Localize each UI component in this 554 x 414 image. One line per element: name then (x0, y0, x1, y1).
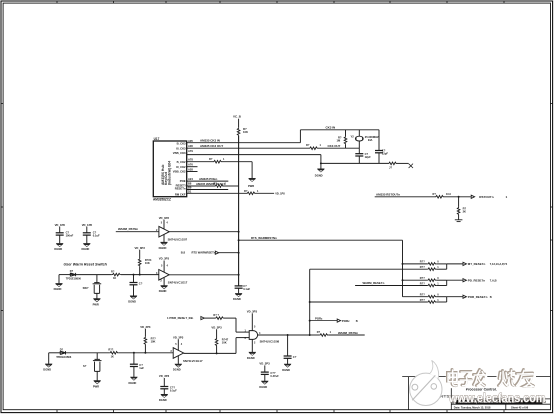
resistor R on A78 row (213, 160, 222, 163)
resistor R pull-up VC_B (237, 128, 240, 136)
svg-text:1uF: 1uF (139, 366, 144, 370)
svg-text:R?: R? (111, 269, 115, 273)
switch SW body (94, 283, 99, 299)
svg-text:7,12,13,A,P,74: 7,12,13,A,P,74 (490, 262, 508, 266)
svg-text:VBB_CK2: VBB_CK2 (173, 170, 186, 174)
watermark logo dot right (431, 384, 437, 390)
wire ferrite right (397, 162, 409, 164)
junction dot gate1 output at bus (238, 231, 240, 233)
wire gate1 input (116, 231, 159, 233)
watermark logo dot left (412, 384, 418, 390)
svg-text:R?: R? (209, 157, 213, 161)
svg-text:Sheet 42 of 96: Sheet 42 of 96 (511, 406, 529, 410)
wire group3 top (403, 296, 428, 298)
wire gate3 output (184, 352, 236, 354)
capacitor Ca (355, 154, 363, 156)
wire debounce cap bottom (133, 285, 135, 296)
svg-text:VD_3P3: VD_3P3 (247, 310, 258, 314)
watermark halo right (497, 368, 537, 390)
size box B divider (455, 399, 457, 404)
wire group1 to arrow (447, 263, 463, 265)
wire osc to cap Ca (358, 148, 360, 153)
svg-text:PORz: PORz (342, 319, 350, 323)
wire group2 bottom (355, 285, 427, 287)
wire pull-up bottom vcc lead (144, 329, 146, 337)
wire AND vcc lead (251, 313, 253, 330)
junction dot group1 left (402, 263, 404, 265)
op-amp triangle gate3 (173, 348, 183, 359)
wire osc bottom rail (321, 162, 388, 164)
wire right branch top (378, 130, 380, 151)
svg-text:J?: J? (389, 166, 392, 170)
svg-text:AM335 CK3 OUT: AM335 CK3 OUT (200, 144, 223, 148)
wire VBB row drop at x=320.9 (320, 155, 322, 169)
IC U17 pin numbers (188, 139, 193, 193)
wire pull-up bottom bottom (144, 345, 146, 353)
wire decap mid bottom (264, 374, 266, 381)
wire osc bottom lead (358, 141, 360, 148)
svg-text:XI_CK2: XI_CK2 (176, 165, 186, 169)
resistor R2 feedback vertical (344, 136, 347, 144)
wire group3 join (446, 297, 448, 302)
wire VC_B lead (238, 119, 240, 128)
svg-text:DGND: DGND (54, 247, 62, 251)
svg-text:PD_RESETn: PD_RESETn (468, 278, 486, 282)
wire AND output (258, 334, 310, 336)
svg-text:DGND: DGND (54, 287, 62, 291)
svg-text:R?: R? (317, 330, 321, 334)
junction dot AND output cap (287, 334, 289, 336)
svg-text:DGND: DGND (259, 385, 267, 389)
svg-text:0.1uF: 0.1uF (93, 234, 100, 238)
title block left edge (408, 377, 410, 410)
svg-text:R??: R?? (420, 265, 425, 269)
svg-text:1: 1 (506, 195, 508, 199)
ground DGND cap B (83, 243, 90, 247)
resistor R group1 top (427, 263, 436, 266)
wire pin A76 stub (187, 166, 198, 168)
connector arrow POR_RESETn (463, 295, 466, 298)
svg-text:www.elecfans.com: www.elecfans.com (448, 391, 546, 405)
resistor R on CK3 OUT row (309, 147, 318, 150)
wire cap B bottom (86, 235, 88, 243)
switch S pushbutton stem bottom (96, 353, 98, 360)
svg-text:Y2: Y2 (351, 135, 355, 139)
svg-text:VD_1P8: VD_1P8 (82, 223, 93, 227)
buffer gate SN74LVC1G17 (gate3 bottom) (173, 339, 236, 364)
svg-text:R??: R?? (420, 260, 425, 264)
wire cap A bottom (59, 235, 61, 243)
wire debounce cap bottom lead (133, 353, 135, 364)
svg-text:PWR: PWR (248, 184, 254, 188)
wire pin D1 row left (187, 192, 247, 194)
wire riser from CK3 IN row (299, 130, 301, 143)
junction dot AND output riser (309, 334, 311, 336)
wire pin B9 row (187, 189, 229, 191)
wire left end drop to gnd (58, 275, 60, 284)
svg-text:2K: 2K (463, 210, 466, 214)
resistor R group2 top (427, 279, 436, 282)
svg-text:DGND: DGND (173, 368, 181, 372)
connector arrow PORz (337, 319, 340, 322)
wire pull-up AND input vcc lead (216, 329, 218, 338)
ground PWR bottom switch (94, 380, 101, 384)
capacitor C cap B (83, 233, 91, 235)
wire group1 bottom riser at x=309.7 (309, 269, 311, 335)
resistor R group1 bottom (427, 268, 436, 271)
wire decap mid vcc lead (264, 365, 266, 372)
wire bottom row main (49, 352, 61, 354)
svg-text:RTS WARMRSETn: RTS WARMRSETn (192, 251, 216, 255)
wire switch row main (59, 274, 70, 276)
svg-text:RSTOUTn: RSTOUTn (479, 195, 493, 199)
svg-text:R??: R?? (420, 281, 425, 285)
wire pull-up AND input bottom (216, 346, 218, 353)
svg-text:MT_RESETn: MT_RESETn (468, 262, 486, 266)
svg-text:DGND: DGND (159, 246, 167, 250)
connector arrow RSTOUTn (471, 195, 474, 198)
wire cap A vcc lead (59, 227, 61, 233)
wire pin A05 CK3 IN row (187, 142, 301, 144)
wire debounce cap lead (133, 275, 135, 283)
svg-text:SN74LVC1G07: SN74LVC1G07 (168, 238, 188, 242)
ground DGND debounce bottom (130, 377, 137, 381)
svg-text:B_CK3: B_CK3 (177, 142, 186, 146)
resistor R group3 bottom (427, 301, 436, 304)
svg-text:VD_3P3: VD_3P3 (135, 246, 146, 250)
ground DGND AND output cap (284, 364, 291, 368)
resistor R series WARM_RSTNn (319, 334, 328, 337)
svg-text:AM335 CK3 IN: AM335 CK3 IN (200, 139, 220, 143)
svg-text:1 PWR_RESET_INn: 1 PWR_RESET_INn (167, 316, 193, 320)
wire gate2 output to bus (169, 274, 238, 276)
svg-text:R? ?: R? ? (213, 313, 219, 317)
watermark char dian (448, 370, 458, 386)
wire pin A28 stub (187, 171, 198, 173)
wire gate1 gnd stem (163, 235, 165, 243)
svg-text:R??: R?? (420, 292, 425, 296)
wire decap left vcc lead (163, 378, 165, 386)
wire RSTOUT left (375, 196, 435, 198)
junction dot riser at group3 bottom (309, 301, 311, 303)
svg-text:B_CK2: B_CK2 (177, 160, 186, 164)
diode D ESD bottom (60, 351, 65, 354)
wire pin A78 row left (187, 161, 213, 163)
svg-text:RESETn: RESETn (175, 187, 186, 191)
wire right drop to resistor groups (402, 240, 404, 297)
svg-text:1K: 1K (111, 355, 114, 359)
svg-text:WARM_RSTNn: WARM_RSTNn (338, 331, 358, 335)
IC U17 vertical part text (161, 161, 171, 185)
junction dot RTS connector at bus (238, 252, 240, 254)
svg-text:DGND: DGND (233, 297, 241, 301)
svg-text:C?: C? (293, 355, 297, 359)
wire RTS row from bus to right (239, 239, 403, 241)
svg-text:A24: A24 (188, 177, 193, 181)
ground PWR under A78 drop (248, 178, 255, 182)
junction dot pull-up bottom (144, 352, 146, 354)
svg-text:100nF: 100nF (66, 234, 74, 238)
wire group3 to arrow (447, 296, 463, 298)
svg-text:VD_3P3: VD_3P3 (211, 325, 222, 329)
connector arrow MT_RESETn (463, 262, 466, 265)
connector arrow into bus (215, 251, 218, 254)
wire pin A24 POE row (187, 180, 229, 182)
watermark logo flame outer (417, 361, 439, 388)
svg-text:10K: 10K (145, 261, 150, 265)
svg-text:AM335 RSTOUTn: AM335 RSTOUTn (376, 192, 400, 196)
wire below pulldown resistor (458, 215, 460, 220)
ground DGND cap A (56, 243, 63, 247)
svg-text:A79: A79 (188, 149, 193, 153)
ground PWR under switch (93, 298, 100, 302)
svg-text:SN74LVC1G17: SN74LVC1G17 (168, 281, 188, 285)
svg-text:XI_CK3: XI_CK3 (176, 146, 186, 150)
wire pull-up R4 vcc lead (139, 250, 141, 258)
wire group2 to arrow (447, 279, 463, 281)
decoupling cap bottom middle (264, 365, 266, 381)
switch S body bottom (95, 359, 100, 380)
wire group3 bottom (310, 301, 428, 303)
capacitor C decap mid (261, 372, 269, 374)
wire Ca bottom (358, 156, 360, 163)
svg-text:EIA: EIA (368, 138, 372, 142)
wire gate2 gnd stem (163, 278, 165, 286)
wire debounce cap bottom bottom (133, 367, 135, 378)
svg-text:(Industrial) E04: (Industrial) E04 (167, 161, 171, 185)
wire PORz row (310, 320, 337, 322)
svg-text:1K: 1K (113, 276, 116, 280)
AND gate U? body (249, 331, 257, 340)
no-connect X (409, 164, 413, 168)
title block row line below bar (451, 403, 550, 405)
svg-text:POE: POE (180, 179, 186, 183)
svg-text:R??: R?? (420, 276, 425, 280)
title block row line above bar (451, 398, 550, 400)
resistor R group3 top (427, 295, 436, 298)
svg-text:RM CKF: RM CKF (175, 193, 186, 197)
svg-text:B: B (490, 295, 492, 299)
svg-text:VD_3P3: VD_3P3 (159, 216, 170, 220)
svg-text:TPD1E10B06: TPD1E10B06 (56, 356, 72, 359)
wire RTS connector into bus (219, 252, 239, 254)
svg-text:WARM_RESETn: WARM_RESETn (363, 281, 385, 285)
svg-text:D?: D? (70, 269, 74, 273)
svg-text:0.47uF: 0.47uF (270, 374, 279, 378)
resistor R4 pull-up (138, 258, 141, 266)
wire RSTOUT pulldown drop (458, 197, 460, 207)
svg-text:DGND: DGND (282, 368, 290, 372)
op-amp U? triangle gate2 (159, 270, 169, 281)
svg-text:DGND: DGND (159, 289, 167, 293)
ground DGND bus bottom (235, 293, 242, 297)
svg-text:10K: 10K (222, 341, 227, 345)
wire pin A78 row right (222, 161, 252, 163)
wire pin A06 CK3 OUT row right part (318, 147, 359, 149)
svg-text:VD_3P3: VD_3P3 (173, 335, 184, 339)
wire top rail to R2 (345, 130, 347, 136)
capacitor C debounce (130, 283, 138, 285)
watermark char you (516, 370, 534, 388)
svg-text:7,A,B: 7,A,B (490, 278, 497, 282)
junction dot osc bottom rail (320, 162, 322, 164)
resistor R series bottom row (109, 352, 118, 355)
wire pin A79 VBB row (187, 154, 321, 156)
svg-text:10K: 10K (151, 339, 156, 343)
wire group2 join (446, 280, 448, 285)
resistor R pull-up AND (215, 338, 218, 346)
watermark char fa (474, 370, 486, 387)
svg-text:DGND: DGND (129, 381, 137, 385)
wire bus vertical (238, 136, 240, 286)
junction dot gate2 output at bus (238, 274, 240, 276)
svg-text:SN74LVC1G08: SN74LVC1G08 (260, 339, 280, 343)
svg-text:A78: A78 (188, 158, 193, 162)
wire osc top rail (300, 129, 379, 131)
ground DGND decap mid (261, 381, 268, 385)
svg-text:A06: A06 (188, 144, 193, 148)
ground DGND bottom left (45, 364, 52, 368)
wire group2 top (403, 279, 428, 281)
svg-text:AM335 WARM RESET: AM335 WARM RESET (196, 182, 225, 186)
wire group1 bottom (310, 268, 428, 270)
svg-text:AM335 POEn: AM335 POEn (199, 177, 217, 181)
op-amp U? triangle gate1 (159, 226, 169, 237)
svg-text:AM3358ZCZ: AM3358ZCZ (153, 198, 171, 202)
svg-text:C?: C? (139, 281, 143, 285)
svg-text:PWR: PWR (93, 303, 99, 307)
svg-text:CK3 OUT: CK3 OUT (328, 144, 341, 148)
ground DGND AND (249, 352, 256, 356)
svg-text:VBB_CK3: VBB_CK3 (173, 151, 186, 155)
switch SW pushbutton stem (96, 275, 98, 283)
title block top line (402, 376, 550, 378)
wire AND output filter cap drop (287, 335, 289, 364)
wire PWR_RESET_INn row (204, 317, 215, 319)
svg-text:SN74LVC1G17: SN74LVC1G17 (183, 359, 203, 363)
wire gate3 out corner up to AND input 2 (235, 338, 237, 354)
svg-text:VC_B: VC_B (233, 115, 241, 119)
capacitor C decap left (160, 387, 168, 389)
svg-text:VD_1P8: VD_1P8 (275, 191, 285, 195)
svg-text:U17: U17 (154, 137, 160, 141)
wire RSTOUT right (444, 196, 471, 198)
wire gate2 vcc lead (163, 261, 165, 273)
svg-text:DGND: DGND (82, 247, 90, 251)
resistor R on D1 row (247, 192, 256, 195)
connector arrow PD_RESETn (463, 279, 466, 282)
wire osc top lead (358, 130, 360, 136)
wire gate3 vcc lead (177, 339, 179, 350)
wire pin A78 drop to PWR gnd (251, 162, 253, 179)
decoupling cap bottom left (163, 378, 165, 394)
svg-text:RTS_WARMRSTNn: RTS_WARMRSTNn (251, 236, 277, 240)
resistor R pulldown RSTOUT (457, 207, 460, 215)
svg-text:POR_RESETn: POR_RESETn (468, 295, 488, 299)
resistor R series RSTOUT (435, 196, 444, 199)
capacitor C AND output (284, 356, 292, 358)
wire decap left bottom (163, 389, 165, 395)
capacitor C cap A (56, 233, 64, 235)
junction dot pull-up AND (216, 352, 218, 354)
resistor J ferrite on bottom rail (388, 162, 397, 165)
wire gate1 output to bus (169, 231, 238, 233)
wire pull-up R4 bottom (139, 266, 141, 274)
svg-text:12pF: 12pF (382, 152, 389, 156)
svg-text:R?: R? (244, 189, 248, 193)
svg-text:B: B (356, 319, 358, 323)
capacitor Cb right branch (375, 151, 383, 153)
ground DGND gate1 (160, 242, 167, 246)
crystal Y2 circle (355, 136, 363, 141)
wire pin A06 CK3 OUT row left part (187, 147, 309, 149)
resistor R group2 bottom (427, 284, 436, 287)
ground DGND decap left (161, 394, 168, 398)
junction dot pull-up at wire (139, 274, 141, 276)
watermark halo left (446, 369, 488, 389)
wire Cb bottom (378, 153, 380, 164)
svg-text:R?: R? (214, 182, 218, 186)
resistor R pull-up bottom (144, 337, 147, 345)
svg-text:PWR: PWR (93, 385, 99, 389)
junction dot RTS row at bus (238, 239, 240, 241)
wire corner down to AND input 1 (235, 318, 237, 332)
capacitor C on bus bottom (235, 286, 243, 288)
svg-text:User Warm Reset Switch: User Warm Reset Switch (64, 263, 108, 267)
watermark logo flame under-fill (417, 361, 439, 388)
wire AND gnd stem (251, 339, 253, 352)
svg-text:B8: B8 (188, 182, 192, 186)
svg-text:DGND: DGND (315, 174, 323, 178)
diode D ESD (70, 273, 75, 276)
rev box right (541, 399, 543, 404)
svg-text:B.8: B.8 (181, 251, 186, 255)
wire pin B8 WARM_RESET row left (187, 185, 215, 187)
svg-text:10.0: 10.0 (446, 192, 452, 196)
resistor R series switch row (112, 273, 121, 276)
svg-text:12pF: 12pF (365, 155, 372, 159)
svg-text:VD_3P3: VD_3P3 (140, 325, 151, 329)
svg-text:R??: R?? (108, 347, 113, 351)
svg-text:0.1uF: 0.1uF (170, 388, 177, 392)
ground DGND switch row left (55, 283, 62, 287)
IC U17 body (153, 141, 186, 197)
svg-text:DGND: DGND (128, 300, 136, 304)
junction dot riser at PORz (309, 320, 311, 322)
wire cap B vcc lead (86, 227, 88, 233)
ground DGND gate3 (175, 364, 182, 368)
wire pin B8 WARM_RESET row right to bus (224, 185, 239, 187)
ground DGND gate2 (160, 285, 167, 289)
junction dot debounce cap bottom (133, 352, 135, 354)
title block date/sheet divider (505, 404, 507, 409)
capacitor C debounce bottom (130, 364, 138, 366)
svg-text:VD_3P3: VD_3P3 (259, 362, 270, 366)
watermark logo diagonal (412, 375, 435, 400)
svg-text:SW?: SW? (83, 286, 89, 290)
svg-text:10K: 10K (243, 130, 248, 134)
junction dot group2 left (402, 279, 404, 281)
ground bar RSTOUT (455, 220, 463, 222)
svg-text:VD_1P8: VD_1P8 (55, 223, 66, 227)
svg-text:WARM_RSTNn: WARM_RSTNn (118, 227, 138, 231)
black name bar (456, 400, 542, 404)
svg-text:A76: A76 (188, 163, 193, 167)
watermark logo circle (410, 373, 442, 405)
wire gate3 gnd stem (177, 356, 179, 364)
svg-text:DGND: DGND (247, 356, 255, 360)
junction dot RSTOUT (458, 196, 460, 198)
